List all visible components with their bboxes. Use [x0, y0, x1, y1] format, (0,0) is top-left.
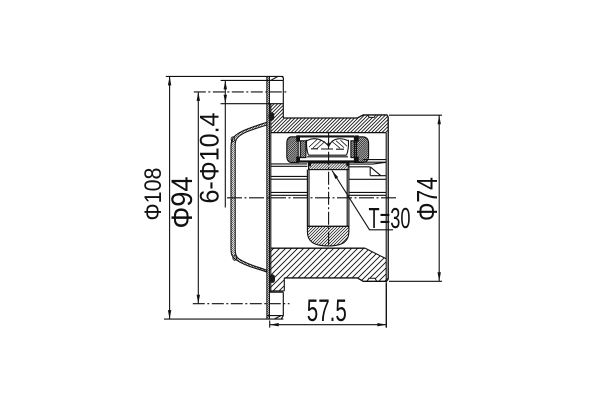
label T=30: [369, 203, 411, 235]
flange ring section below bolt hole: [269, 104, 283, 118]
weld blob top: [268, 112, 274, 120]
bearing outer ring right (dense hatch): [354, 137, 368, 163]
roller left (hatch): [300, 141, 306, 158]
rim bar top edge + phi108 extension: [166, 75, 284, 77]
leader T=30: [332, 171, 393, 230]
retainer top lines: [297, 136, 354, 137]
retainer bottom lines: [297, 161, 354, 162]
bolt hole axis top: [194, 91, 289, 93]
bell shell fill: [231, 122, 267, 272]
stud lower dome (hatch): [307, 226, 349, 246]
body upper wall band (hatched): [271, 114, 388, 132]
plate strip edges: [267, 76, 270, 319]
plate strip fill (stipple): [267, 76, 270, 319]
bolt hole top edge + extension: [221, 79, 284, 81]
seal block top-right: [355, 135, 359, 141]
dim phi108 line + arrows: [168, 76, 171, 319]
dim 57.5 extensions: [270, 283, 387, 327]
left interior lines: [271, 164, 308, 195]
svg-text:6-Φ10.4: 6-Φ10.4: [195, 113, 225, 204]
dim phi74 line + arrows: [438, 115, 441, 281]
weld blob bottom: [269, 274, 275, 283]
bolt hole bottom edge + extension: [221, 103, 284, 105]
right chamfer features: [349, 162, 386, 175]
inner right face line: [385, 133, 387, 328]
dim 6-phi10.4 line + arrows: [224, 80, 227, 207]
top circlip groove: [368, 115, 376, 118]
bearing outer ring left (dense hatch): [287, 137, 298, 163]
stud bottom face line: [307, 225, 349, 227]
svg-text:57.5: 57.5: [307, 292, 347, 328]
stud axis: [328, 132, 330, 248]
bottom lip step: [269, 278, 284, 291]
body left face line: [270, 104, 272, 292]
label 57.5: [307, 292, 347, 328]
svg-text:Φ108: Φ108: [140, 168, 167, 221]
flange bottom rim bar: [267, 316, 284, 320]
label phi74: [412, 177, 444, 221]
seal block bottom-right: [355, 157, 359, 163]
spherical roller scribbles: [306, 139, 348, 157]
bell inner profile: [235, 125, 267, 271]
phi74 extensions: [389, 115, 442, 281]
bore chamfer to right face: [365, 248, 386, 259]
stud side walls: [307, 170, 349, 227]
upper wall top edge: [283, 115, 388, 118]
svg-text:T=30: T=30: [369, 203, 411, 235]
label phi94: [166, 177, 199, 229]
bore bottom line: [271, 247, 365, 249]
main axis: [227, 197, 397, 199]
dim 57.5 line + arrows: [270, 323, 387, 326]
bolt hole axis bottom: [193, 303, 290, 305]
bell bend highlight bottom: [233, 256, 237, 261]
seal block bottom-left: [296, 157, 300, 163]
rim bar right edge w/ chamfer: [282, 76, 284, 80]
body lower wall band (hatched): [269, 248, 388, 291]
bore top line: [271, 132, 386, 134]
bottom circlip groove: [367, 278, 377, 281]
label phi108: [140, 168, 167, 221]
lower wall bottom edges: [284, 278, 388, 281]
flange top rim bar (section above bolt hole): [267, 76, 283, 80]
bottom rim bar outlines: [164, 316, 283, 320]
bell outer profile: [231, 122, 267, 272]
label 6-phi10.4: [195, 113, 225, 204]
roller right (hatch): [351, 141, 357, 158]
phi108 bottom extension handled in rim bar; dim phi94 line + arrows: [197, 92, 200, 304]
bell bend highlight top: [231, 137, 235, 142]
right interior lines: [349, 160, 386, 196]
flange right face (hole back wall): [282, 80, 284, 118]
spline collar on stud (hatch): [309, 163, 349, 170]
svg-text:Φ74: Φ74: [412, 177, 444, 221]
right end face: [387, 117, 389, 279]
seal block top-left: [296, 135, 300, 141]
bottom hole edge + back wall: [269, 292, 283, 315]
